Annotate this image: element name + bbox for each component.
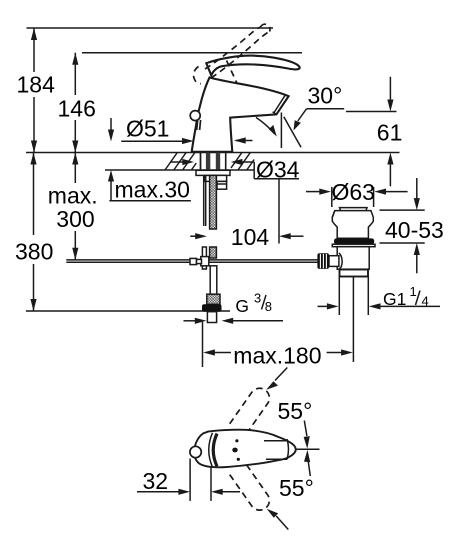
- dimension max.30 lower arrow below deck: [108, 170, 114, 201]
- drain rod knurled knob: [317, 253, 329, 269]
- deck hatch left block: [165, 153, 196, 171]
- extension line from Ø34 box down to 104 dim: [278, 179, 280, 244]
- threaded mounting stud upper: [210, 175, 217, 229]
- svg-text:104: 104: [231, 224, 270, 250]
- rod clamp blocks: [190, 258, 202, 264]
- dim line 146 horizontal: [82, 52, 302, 54]
- 55° bottom angle arrow at reference line: [304, 450, 310, 476]
- lever raised position dashed: [194, 24, 271, 83]
- svg-text:max.180: max.180: [233, 343, 321, 369]
- svg-text:Ø51: Ø51: [126, 116, 169, 142]
- deck bottom line: [105, 169, 254, 171]
- dimension 380 vertical with arrows: [30, 153, 36, 312]
- dimension max.180 arrows: [203, 349, 353, 355]
- drain centerline: [352, 277, 354, 362]
- spout tip aerator lines: [273, 95, 286, 114]
- svg-text:G1: G1: [383, 289, 406, 309]
- dimension G3/8 arrows: [184, 318, 284, 324]
- dimension Ø34 left arrow: [170, 159, 194, 165]
- svg-text:32: 32: [143, 468, 169, 494]
- svg-text:184: 184: [17, 72, 56, 98]
- dimension Ø51 right arrow: [234, 137, 253, 143]
- dimension 104: [190, 233, 303, 239]
- svg-text:max.: max.: [48, 183, 98, 209]
- dimension 61 extension line: [346, 111, 397, 113]
- svg-text:Ø63: Ø63: [332, 179, 375, 205]
- svg-text:380: 380: [15, 239, 53, 265]
- 55° bottom angle leader at dashed tip: [267, 509, 289, 530]
- svg-text:1: 1: [410, 284, 417, 299]
- 55° top angle leader at dashed tip: [266, 368, 287, 390]
- plan view handle end cap: [287, 439, 289, 459]
- dimension 32 arrows: [137, 489, 240, 495]
- faucet body outline: [192, 78, 289, 152]
- label G 3/8: [235, 291, 272, 316]
- drain bottom ring nut: [340, 270, 369, 277]
- svg-text:55°: 55°: [279, 475, 314, 501]
- flexible hose braid section: [207, 294, 220, 304]
- svg-text:max.30: max.30: [115, 177, 190, 203]
- dimension max.300 vertical with arrows: [72, 153, 78, 260]
- pull rod vertical lines: [204, 175, 206, 226]
- drain flange rim line: [332, 211, 335, 218]
- dim line 184 top horizontal: [27, 27, 274, 29]
- deck top line: [26, 152, 400, 154]
- hose-end reference line at 380 bottom: [26, 310, 230, 312]
- shank washer below deck: [196, 170, 230, 175]
- dimension 146 vertical with arrows: [72, 53, 78, 153]
- svg-text:Ø34: Ø34: [256, 157, 300, 183]
- dimension Ø34 right arrow and leader box: [231, 159, 299, 179]
- hose G3/8 nut: [202, 304, 222, 311]
- dimension Ø63 arrows: [306, 187, 408, 207]
- dimension G1 1/4 arrows: [318, 303, 441, 309]
- pop-up rod horizontal double line: [66, 260, 317, 262]
- 30° leader arrow: [294, 109, 307, 131]
- svg-text:40-53: 40-53: [385, 217, 444, 243]
- dimension 61 arrows: [387, 77, 393, 187]
- plan view dashed handle rotated up 55°: [230, 388, 270, 443]
- 30° arc arrow: [256, 118, 277, 137]
- plan view handle solid outline: [194, 430, 296, 468]
- drain seal flange: [332, 244, 375, 247]
- spout outlet vertical extension line: [280, 113, 282, 149]
- dimension 40-53 extension lines: [380, 210, 425, 243]
- deck hatch right block: [231, 153, 254, 171]
- hose outlet bracket: [217, 181, 227, 189]
- drain flange body: [332, 211, 373, 239]
- lever handle solid: [206, 56, 299, 76]
- threaded mounting stud lower segment: [210, 247, 217, 258]
- svg-text:4: 4: [422, 294, 429, 309]
- drain side port boss: [339, 253, 342, 269]
- shank nut below washer: [205, 175, 227, 181]
- hose end tube: [207, 312, 216, 323]
- svg-text:30°: 30°: [308, 83, 343, 109]
- svg-text:300: 300: [56, 206, 94, 232]
- label max. 300: [48, 183, 98, 233]
- plan view horizontal reference line: [296, 448, 320, 450]
- rod tee junction: [201, 247, 209, 269]
- dimension max.30 upper arrow above deck: [108, 118, 114, 142]
- plan view handle dots: [232, 439, 240, 461]
- dimension 184 vertical with arrows: [31, 28, 37, 153]
- plan view pull rod knob: [190, 446, 201, 457]
- svg-text:55°: 55°: [278, 398, 313, 424]
- svg-text:3: 3: [254, 291, 261, 306]
- dimension max.180 extension line left: [202, 322, 204, 367]
- 55° top angle arrow at reference line: [304, 421, 310, 449]
- svg-text:8: 8: [265, 299, 272, 314]
- dimension 32 extension lines: [190, 459, 211, 501]
- label 30° underline: [307, 108, 345, 110]
- drain rod stem: [329, 256, 339, 267]
- flexible hose upper tube: [210, 266, 217, 294]
- drain plug cap: [340, 208, 368, 211]
- drain body cylinder: [337, 247, 369, 270]
- dimension 40-53 arrows: [414, 178, 420, 273]
- svg-text:61: 61: [377, 120, 403, 146]
- label max.30 underlined: [109, 177, 190, 203]
- plan view dashed handle rotated down 55°: [230, 455, 270, 510]
- dimension Ø51 leader with arrow: [121, 138, 193, 144]
- spout angle slanted line: [284, 117, 301, 148]
- svg-text:G: G: [235, 296, 249, 316]
- plan view handle left crescent bold: [213, 434, 217, 467]
- svg-text:146: 146: [58, 95, 96, 121]
- label G1 1/4: [383, 284, 429, 309]
- drain tailpipe: [339, 277, 368, 316]
- plan view handle left inner arc: [209, 433, 213, 467]
- drain seal ring: [334, 238, 374, 244]
- mounting shank in deck: [201, 153, 226, 171]
- plan view handle tip seam lines: [264, 441, 287, 460]
- pop-up pull rod knob: [190, 111, 200, 130]
